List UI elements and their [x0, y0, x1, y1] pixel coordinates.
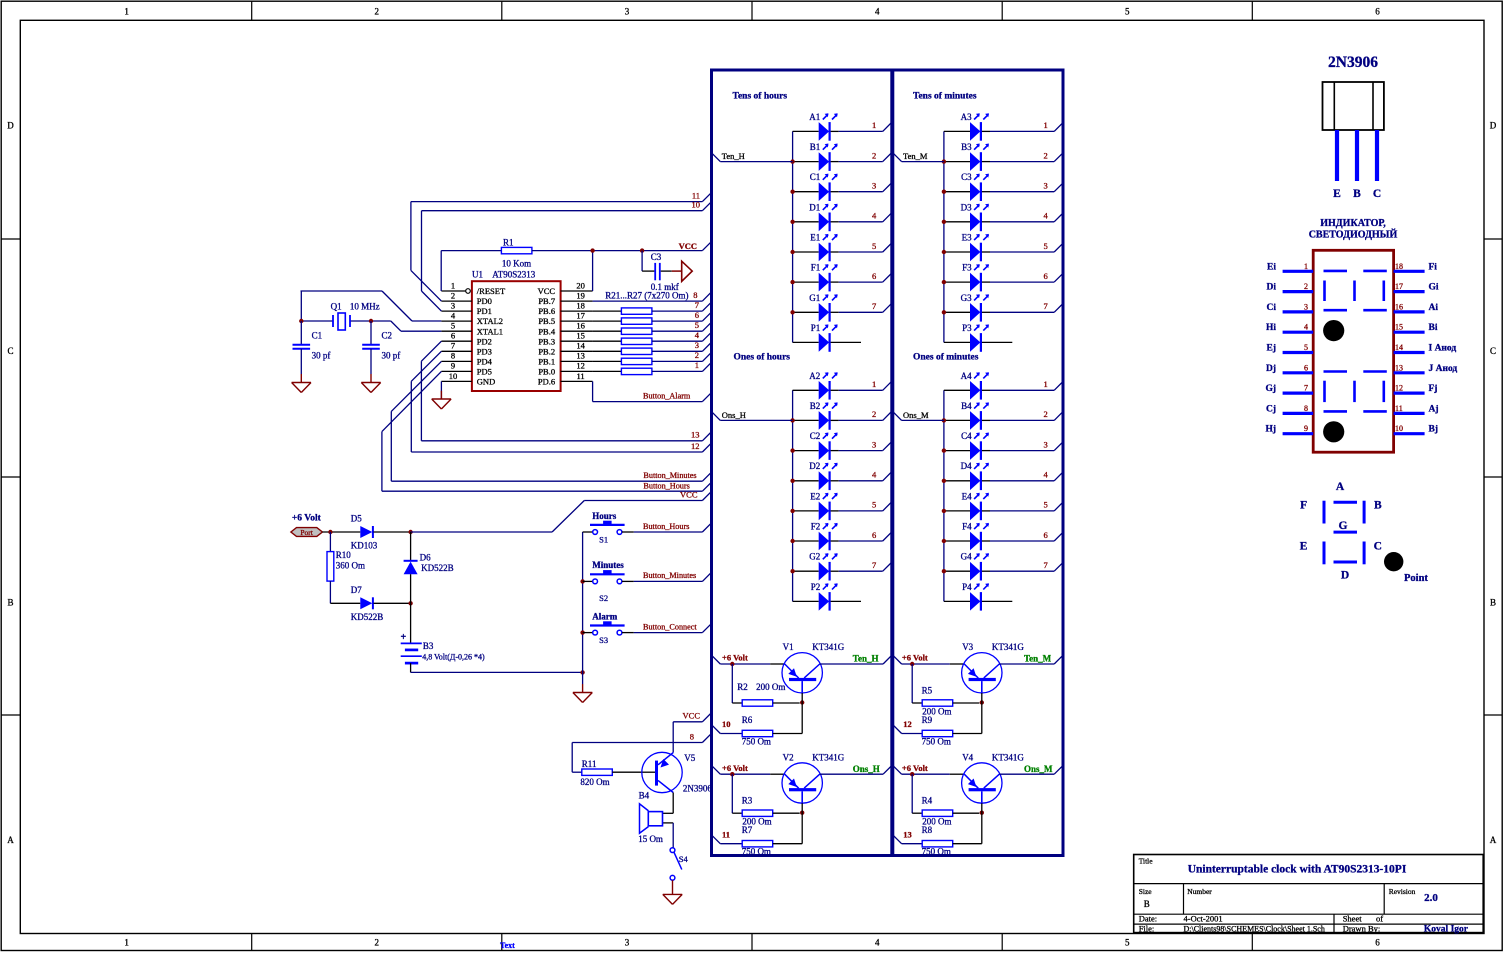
svg-text:C: C — [1374, 541, 1382, 553]
svg-text:S2: S2 — [599, 593, 608, 603]
svg-text:7: 7 — [451, 341, 455, 351]
svg-text:Ten_H: Ten_H — [722, 151, 745, 161]
svg-text:18: 18 — [1395, 262, 1403, 271]
svg-text:D4: D4 — [961, 461, 972, 471]
svg-text:B4: B4 — [639, 791, 650, 801]
svg-text:E3: E3 — [962, 233, 972, 243]
svg-text:F1: F1 — [811, 263, 821, 273]
svg-text:Button_Minutes: Button_Minutes — [643, 471, 696, 480]
svg-text:F3: F3 — [962, 263, 972, 273]
svg-text:4: 4 — [872, 211, 877, 221]
svg-text:B: B — [1144, 899, 1150, 909]
svg-text:Tens of minutes: Tens of minutes — [913, 92, 977, 102]
svg-text:KT341G: KT341G — [812, 642, 844, 652]
svg-text:A: A — [1336, 481, 1345, 493]
svg-text:PB.2: PB.2 — [538, 346, 555, 356]
svg-text:750 Om: 750 Om — [742, 847, 771, 857]
svg-text:P4: P4 — [962, 582, 972, 592]
svg-text:Hi: Hi — [1266, 323, 1276, 333]
svg-text:11: 11 — [577, 371, 585, 381]
svg-text:PB.6: PB.6 — [538, 306, 555, 316]
svg-text:4: 4 — [872, 470, 877, 480]
svg-text:Button_Minutes: Button_Minutes — [643, 571, 696, 580]
svg-text:R8: R8 — [922, 825, 933, 835]
svg-text:Size: Size — [1139, 887, 1153, 896]
svg-text:1: 1 — [695, 360, 699, 370]
svg-text:C2: C2 — [810, 431, 821, 441]
svg-text:A: A — [7, 835, 14, 845]
svg-text:D1: D1 — [809, 202, 820, 212]
svg-text:Ons_H: Ons_H — [853, 764, 880, 774]
svg-text:D2: D2 — [809, 461, 820, 471]
svg-text:3: 3 — [1304, 302, 1308, 311]
svg-text:16: 16 — [1395, 302, 1403, 311]
svg-text:Point: Point — [1404, 573, 1428, 584]
svg-text:8: 8 — [693, 290, 697, 300]
svg-text:KD522B: KD522B — [351, 612, 384, 622]
svg-text:/RESET: /RESET — [477, 286, 506, 296]
svg-text:5: 5 — [451, 321, 455, 331]
svg-text:Button_Hours: Button_Hours — [643, 522, 689, 531]
svg-text:B: B — [1353, 188, 1361, 200]
svg-text:9: 9 — [451, 361, 455, 371]
svg-text:Alarm: Alarm — [592, 611, 617, 621]
svg-text:Port: Port — [300, 528, 313, 537]
svg-text:Ones of minutes: Ones of minutes — [913, 353, 979, 363]
svg-text:2: 2 — [375, 938, 380, 948]
svg-text:G2: G2 — [809, 552, 820, 562]
svg-text:Button_Connect: Button_Connect — [643, 622, 697, 631]
svg-text:B: B — [1490, 598, 1496, 608]
svg-text:Title: Title — [1139, 857, 1154, 866]
svg-text:5: 5 — [695, 320, 699, 330]
svg-text:6: 6 — [1304, 363, 1308, 372]
svg-text:B4: B4 — [961, 401, 972, 411]
svg-text:Aj: Aj — [1429, 404, 1439, 414]
svg-text:Ei: Ei — [1267, 262, 1276, 272]
svg-text:R1: R1 — [503, 237, 514, 247]
svg-text:P2: P2 — [811, 582, 821, 592]
svg-text:8: 8 — [690, 731, 694, 741]
svg-text:8: 8 — [1304, 404, 1308, 413]
svg-text:6: 6 — [1375, 7, 1380, 17]
svg-text:R5: R5 — [922, 685, 933, 695]
svg-text:+: + — [400, 632, 406, 643]
svg-text:10 Kom: 10 Kom — [502, 258, 531, 268]
svg-text:D: D — [7, 121, 14, 131]
svg-text:PD1: PD1 — [477, 306, 492, 316]
svg-text:5: 5 — [1125, 7, 1130, 17]
svg-text:17: 17 — [576, 310, 585, 320]
svg-text:3: 3 — [451, 300, 455, 310]
svg-text:Ten_M: Ten_M — [1024, 654, 1052, 664]
svg-text:15: 15 — [1395, 323, 1403, 332]
svg-text:V2: V2 — [783, 752, 794, 762]
svg-text:E4: E4 — [962, 491, 972, 501]
svg-text:G4: G4 — [961, 552, 972, 562]
svg-text:Fj: Fj — [1429, 384, 1438, 394]
svg-text:ИНДИКАТОР,: ИНДИКАТОР, — [1320, 218, 1386, 229]
svg-text:2: 2 — [375, 7, 380, 17]
svg-text:Sheet: Sheet — [1343, 914, 1363, 924]
svg-text:VCC: VCC — [680, 490, 698, 500]
svg-text:G3: G3 — [961, 293, 972, 303]
svg-text:360 Om: 360 Om — [336, 561, 365, 571]
svg-text:V4: V4 — [962, 752, 973, 762]
svg-text:+6 Volt: +6 Volt — [722, 653, 748, 663]
svg-text:10: 10 — [1395, 424, 1403, 433]
svg-text:17: 17 — [1395, 282, 1403, 291]
svg-text:2N3906: 2N3906 — [1328, 54, 1378, 71]
svg-text:+6 Volt: +6 Volt — [292, 514, 322, 524]
svg-text:7: 7 — [872, 560, 876, 570]
svg-text:C: C — [1373, 188, 1381, 200]
svg-text:Ones of hours: Ones of hours — [734, 353, 791, 363]
svg-text:VCC: VCC — [538, 286, 556, 296]
svg-text:7: 7 — [872, 301, 876, 311]
svg-text:Gi: Gi — [1429, 283, 1439, 293]
svg-text:12: 12 — [576, 361, 585, 371]
svg-text:GND: GND — [477, 377, 495, 387]
svg-text:6: 6 — [872, 530, 876, 540]
svg-text:5: 5 — [1043, 500, 1047, 510]
svg-text:5: 5 — [1125, 938, 1130, 948]
svg-text:13: 13 — [1395, 363, 1403, 372]
svg-text:PB.0: PB.0 — [538, 367, 555, 377]
svg-text:Number: Number — [1187, 887, 1212, 896]
svg-text:D7: D7 — [351, 585, 362, 595]
svg-text:4,8 Volt(Д-0,26 *4): 4,8 Volt(Д-0,26 *4) — [422, 653, 485, 662]
svg-text:D: D — [1490, 121, 1497, 131]
svg-text:4: 4 — [875, 7, 880, 17]
svg-text:1: 1 — [124, 938, 129, 948]
svg-text:7: 7 — [1304, 384, 1308, 393]
svg-text:4: 4 — [875, 938, 880, 948]
svg-text:6: 6 — [1043, 271, 1047, 281]
svg-text:5: 5 — [872, 500, 876, 510]
svg-text:KD103: KD103 — [351, 541, 378, 551]
svg-text:13: 13 — [576, 351, 585, 361]
svg-text:PD0: PD0 — [477, 296, 492, 306]
svg-text:3: 3 — [695, 340, 699, 350]
svg-text:30 pf: 30 pf — [312, 351, 331, 361]
svg-text:4: 4 — [1304, 323, 1308, 332]
svg-text:R4: R4 — [922, 796, 933, 806]
svg-text:Date:: Date: — [1139, 914, 1157, 924]
svg-text:S4: S4 — [679, 854, 689, 864]
svg-text:+6 Volt: +6 Volt — [722, 763, 748, 773]
svg-text:2.0: 2.0 — [1424, 892, 1438, 904]
svg-text:A1: A1 — [809, 112, 820, 122]
svg-text:R7: R7 — [742, 825, 753, 835]
svg-text:P1: P1 — [811, 323, 821, 333]
svg-text:B: B — [1374, 500, 1382, 512]
svg-text:6: 6 — [872, 271, 876, 281]
svg-text:R10: R10 — [336, 550, 352, 560]
svg-text:C2: C2 — [382, 331, 393, 341]
svg-text:30 pf: 30 pf — [382, 351, 401, 361]
svg-text:750 Om: 750 Om — [742, 736, 771, 746]
svg-text:C4: C4 — [961, 431, 972, 441]
svg-text:KT341G: KT341G — [812, 752, 844, 762]
svg-text:D: D — [1341, 570, 1349, 582]
svg-text:+6 Volt: +6 Volt — [902, 653, 928, 663]
svg-text:V1: V1 — [783, 642, 794, 652]
svg-text:3: 3 — [872, 439, 876, 449]
svg-text:B3: B3 — [961, 142, 972, 152]
svg-text:6: 6 — [695, 310, 699, 320]
svg-text:2N3906: 2N3906 — [683, 784, 712, 794]
svg-text:C: C — [7, 346, 13, 356]
svg-text:E: E — [1333, 188, 1341, 200]
svg-text:D:\Clients98\SCHEMES\Clock\She: D:\Clients98\SCHEMES\Clock\Sheet 1.Sch — [1184, 924, 1325, 933]
svg-text:PD2: PD2 — [477, 336, 492, 346]
svg-text:A: A — [1490, 835, 1497, 845]
svg-text:7: 7 — [1043, 301, 1047, 311]
svg-text:Hj: Hj — [1265, 425, 1276, 435]
svg-text:15: 15 — [576, 331, 585, 341]
svg-text:G: G — [1339, 520, 1348, 532]
svg-text:2: 2 — [1304, 282, 1308, 291]
svg-text:3: 3 — [625, 938, 630, 948]
svg-text:2: 2 — [451, 290, 455, 300]
svg-text:PB.3: PB.3 — [538, 336, 555, 346]
svg-text:S1: S1 — [599, 535, 608, 545]
svg-text:820 Om: 820 Om — [580, 777, 609, 787]
svg-text:3: 3 — [1043, 181, 1047, 191]
svg-text:C3: C3 — [961, 172, 972, 182]
svg-text:13: 13 — [691, 430, 700, 440]
svg-text:File:: File: — [1139, 923, 1155, 933]
svg-text:XTAL2: XTAL2 — [477, 316, 503, 326]
svg-text:J Анод: J Анод — [1429, 364, 1458, 374]
svg-text:U1: U1 — [472, 270, 483, 280]
svg-text:Button_Alarm: Button_Alarm — [643, 391, 691, 400]
svg-text:Q1: Q1 — [331, 302, 342, 312]
svg-text:Minutes: Minutes — [592, 560, 624, 570]
svg-text:18: 18 — [576, 300, 585, 310]
svg-text:A2: A2 — [809, 371, 820, 381]
svg-text:5: 5 — [1043, 241, 1047, 251]
svg-text:Ons_M: Ons_M — [1024, 764, 1053, 774]
svg-text:D5: D5 — [351, 514, 362, 524]
svg-text:Ons_H: Ons_H — [722, 410, 746, 420]
svg-text:6: 6 — [451, 331, 455, 341]
svg-text:C1: C1 — [312, 331, 323, 341]
svg-text:4: 4 — [1043, 211, 1048, 221]
svg-text:R2: R2 — [737, 682, 748, 692]
svg-text:2: 2 — [1043, 150, 1047, 160]
svg-text:14: 14 — [1395, 343, 1403, 352]
svg-text:VCC: VCC — [679, 241, 697, 251]
svg-text:R11: R11 — [582, 759, 597, 769]
svg-text:of: of — [1376, 914, 1383, 924]
svg-text:F4: F4 — [962, 522, 972, 532]
svg-text:8: 8 — [451, 351, 455, 361]
svg-text:10 MHz: 10 MHz — [350, 302, 380, 312]
svg-text:XTAL1: XTAL1 — [477, 326, 503, 336]
svg-text:AT90S2313: AT90S2313 — [492, 270, 536, 280]
svg-text:Fi: Fi — [1429, 262, 1438, 272]
svg-text:1: 1 — [872, 120, 876, 130]
svg-text:C1: C1 — [810, 172, 821, 182]
svg-text:B2: B2 — [810, 401, 821, 411]
svg-text:1: 1 — [1043, 120, 1047, 130]
svg-text:KT341G: KT341G — [992, 642, 1024, 652]
svg-text:Ten_M: Ten_M — [903, 151, 928, 161]
svg-text:Tens of hours: Tens of hours — [733, 92, 788, 102]
svg-text:5: 5 — [872, 241, 876, 251]
svg-text:9: 9 — [1304, 424, 1308, 433]
svg-text:10: 10 — [692, 200, 701, 210]
svg-text:E2: E2 — [810, 491, 820, 501]
svg-text:СВЕТОДИОДНЫЙ: СВЕТОДИОДНЫЙ — [1309, 229, 1398, 241]
svg-text:750 Om: 750 Om — [922, 736, 951, 746]
svg-text:16: 16 — [576, 321, 585, 331]
svg-text:Dj: Dj — [1266, 364, 1276, 374]
svg-text:Ons_M: Ons_M — [903, 410, 929, 420]
svg-text:12: 12 — [903, 719, 912, 729]
svg-text:PB.4: PB.4 — [538, 326, 556, 336]
svg-text:1: 1 — [1304, 262, 1308, 271]
svg-text:2: 2 — [872, 409, 876, 419]
svg-text:C3: C3 — [651, 252, 662, 262]
svg-text:1: 1 — [1043, 379, 1047, 389]
svg-text:3: 3 — [872, 181, 876, 191]
svg-text:PD5: PD5 — [477, 367, 492, 377]
svg-text:2: 2 — [695, 350, 699, 360]
svg-text:VCC: VCC — [683, 711, 701, 721]
svg-text:3: 3 — [1043, 439, 1047, 449]
svg-text:12: 12 — [691, 441, 700, 451]
svg-text:A3: A3 — [961, 112, 972, 122]
svg-text:11: 11 — [722, 829, 730, 839]
svg-text:15 Om: 15 Om — [638, 834, 663, 844]
svg-text:Hours: Hours — [592, 511, 617, 521]
svg-text:6: 6 — [1375, 938, 1380, 948]
svg-text:G1: G1 — [809, 293, 820, 303]
svg-text:1: 1 — [124, 7, 129, 17]
svg-text:R9: R9 — [922, 715, 933, 725]
svg-text:E1: E1 — [810, 233, 820, 243]
svg-text:13: 13 — [903, 829, 912, 839]
svg-text:P3: P3 — [962, 323, 972, 333]
svg-text:Ten_H: Ten_H — [853, 654, 879, 664]
svg-text:R6: R6 — [742, 715, 753, 725]
svg-text:PB.5: PB.5 — [538, 316, 555, 326]
svg-text:19: 19 — [576, 290, 585, 300]
svg-text:A4: A4 — [961, 371, 972, 381]
svg-text:14: 14 — [576, 341, 585, 351]
svg-text:Uninterruptable clock with AT9: Uninterruptable clock with AT90S2313-10P… — [1188, 864, 1407, 876]
svg-text:6: 6 — [1043, 530, 1047, 540]
svg-text:3: 3 — [625, 7, 630, 17]
svg-text:PD.6: PD.6 — [538, 377, 555, 387]
svg-text:PD4: PD4 — [477, 357, 493, 367]
svg-text:4: 4 — [1043, 470, 1048, 480]
svg-text:KD522B: KD522B — [421, 563, 454, 573]
svg-text:2: 2 — [872, 150, 876, 160]
svg-text:D6: D6 — [420, 552, 431, 562]
svg-text:7: 7 — [1043, 560, 1047, 570]
svg-text:PD3: PD3 — [477, 346, 492, 356]
svg-text:Di: Di — [1267, 283, 1277, 293]
svg-text:12: 12 — [1395, 384, 1403, 393]
svg-text:Bj: Bj — [1429, 425, 1439, 435]
svg-text:Ci: Ci — [1267, 303, 1277, 313]
svg-text:D3: D3 — [961, 202, 972, 212]
svg-text:Ej: Ej — [1267, 344, 1277, 354]
svg-text:2: 2 — [1043, 409, 1047, 419]
svg-text:200 Om: 200 Om — [756, 682, 785, 692]
svg-text:5: 5 — [1304, 343, 1308, 352]
svg-text:R3: R3 — [742, 796, 753, 806]
svg-text:Text: Text — [500, 941, 515, 950]
svg-text:C: C — [1490, 346, 1496, 356]
svg-text:KT341G: KT341G — [992, 752, 1024, 762]
svg-text:Revision: Revision — [1389, 887, 1416, 896]
svg-text:B: B — [7, 598, 13, 608]
svg-text:+6 Volt: +6 Volt — [902, 763, 928, 773]
svg-text:11: 11 — [1395, 404, 1403, 413]
svg-text:Gj: Gj — [1265, 384, 1276, 394]
svg-text:PB.7: PB.7 — [538, 296, 555, 306]
svg-text:4-Oct-2001: 4-Oct-2001 — [1184, 914, 1223, 924]
svg-text:R21...R27 (7x270 Om): R21...R27 (7x270 Om) — [605, 291, 688, 301]
svg-text:750 Om: 750 Om — [922, 847, 951, 857]
svg-text:B3: B3 — [423, 641, 434, 651]
svg-text:F: F — [1300, 500, 1307, 512]
svg-text:V5: V5 — [684, 753, 695, 763]
svg-text:Koval Igor: Koval Igor — [1424, 924, 1469, 934]
svg-text:Drawn By:: Drawn By: — [1343, 923, 1381, 933]
svg-text:7: 7 — [695, 300, 699, 310]
svg-text:E: E — [1300, 541, 1308, 553]
svg-text:10: 10 — [722, 719, 731, 729]
svg-text:B1: B1 — [810, 142, 821, 152]
svg-text:Ai: Ai — [1429, 303, 1439, 313]
svg-text:S3: S3 — [599, 635, 608, 645]
svg-text:PB.1: PB.1 — [538, 357, 555, 367]
svg-text:I Анод: I Анод — [1429, 344, 1457, 354]
svg-text:1: 1 — [872, 379, 876, 389]
svg-text:Cj: Cj — [1266, 404, 1276, 414]
svg-text:1: 1 — [451, 280, 455, 290]
svg-text:10: 10 — [449, 371, 458, 381]
svg-text:V3: V3 — [962, 642, 973, 652]
svg-text:F2: F2 — [811, 522, 821, 532]
svg-text:Bi: Bi — [1429, 323, 1438, 333]
svg-text:20: 20 — [576, 280, 585, 290]
